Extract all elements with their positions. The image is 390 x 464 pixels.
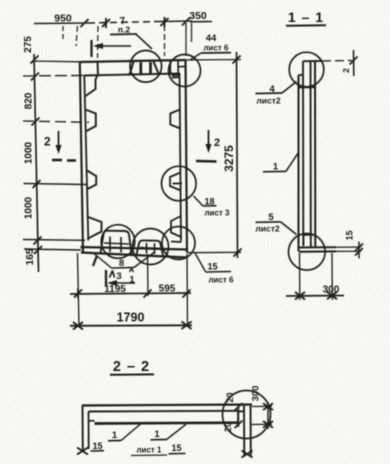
weld dash inside K6	[171, 241, 182, 244]
weld slash mark	[93, 256, 97, 267]
dim 300: extension lines	[300, 253, 333, 300]
3275 top tick	[233, 56, 241, 64]
extension x186	[186, 254, 189, 327]
leader 18 to K3	[194, 196, 204, 206]
right leg end arrow	[242, 451, 253, 458]
top hat ticks	[141, 62, 151, 74]
right corner box inside K2	[170, 61, 180, 75]
tick x78	[74, 289, 82, 299]
left dimension line	[34, 54, 39, 272]
member vertical v1	[297, 75, 299, 252]
top extension x98	[97, 26, 100, 58]
bottom weld hat 2	[137, 240, 164, 255]
left tab A	[85, 75, 98, 96]
top plate outer line	[82, 405, 252, 406]
section mark 2 left: dashes	[52, 159, 76, 162]
left leg end arrow	[77, 448, 88, 455]
leader 4 to K7	[282, 82, 297, 94]
right top corner step	[178, 60, 186, 74]
right tab B'	[170, 110, 180, 129]
extension line y76.5	[23, 74, 85, 77]
dim 20 top: tick	[350, 57, 358, 65]
extension line y121.5	[23, 121, 89, 122]
left tab B	[85, 110, 96, 132]
top extension x191	[191, 23, 193, 42]
top weld hat inside circle	[130, 62, 159, 75]
dim 15 ticks	[355, 244, 363, 256]
dimension line 1790	[70, 324, 192, 327]
top dim tick 164	[161, 17, 169, 27]
title underline	[286, 24, 326, 27]
extension line y240.5	[23, 239, 85, 242]
top dimension line	[34, 21, 192, 24]
detail circle K3 right mid	[162, 166, 197, 201]
dimension line 1195/595	[70, 293, 191, 294]
dim arrows x268	[263, 403, 273, 427]
weld line top	[299, 86, 316, 88]
detail circle K2 top right corner	[169, 55, 201, 87]
extension line y250	[24, 249, 81, 250]
bottom hat 1 ticks	[110, 237, 121, 253]
bottom hat 2 mid dash	[140, 248, 160, 249]
underline p.2	[110, 33, 137, 36]
dim 20 top: leader dashes	[322, 60, 352, 63]
section mark 2 left: arrow	[58, 131, 60, 148]
left top corner step	[97, 62, 100, 75]
tick y184	[33, 180, 41, 188]
tick y121.5	[32, 118, 40, 126]
top dim tick 106	[102, 18, 110, 28]
right tab D'	[171, 216, 181, 237]
left member outer edge	[80, 62, 83, 253]
right leg outer pair	[244, 405, 251, 456]
ref arrow pointing left	[97, 45, 131, 47]
tick y250	[34, 246, 42, 254]
caret over 1	[130, 269, 134, 273]
member vertical v3	[310, 61, 312, 248]
top extension x164	[164, 25, 166, 56]
underline list 1	[131, 454, 167, 457]
cap jog	[299, 74, 304, 76]
right member inner edge	[180, 74, 182, 242]
3275 bottom tick	[234, 249, 242, 257]
extension lines right of 2-2	[251, 406, 272, 424]
bottom chord inner edge	[81, 247, 187, 250]
bottom hat 1 mid dash	[104, 243, 129, 244]
mark lambda	[110, 271, 115, 278]
tick y59	[31, 56, 39, 64]
top plate inner line	[89, 410, 239, 413]
top dim tick 84	[81, 19, 89, 27]
detail circle K8 bottom	[289, 234, 326, 271]
member vertical v4	[314, 61, 316, 248]
extension line y60.5	[32, 60, 80, 63]
bottom hat 2 ticks	[147, 243, 155, 254]
right tab C' weld dash	[173, 183, 183, 185]
tick y240.5	[34, 237, 42, 245]
right tab C'	[170, 173, 181, 191]
step lines left	[89, 420, 95, 422]
extension line y184	[24, 184, 88, 185]
tick y76.5	[31, 73, 39, 81]
leader 15 to K6	[195, 253, 206, 272]
left member inner edge	[84, 75, 88, 241]
dim bar x238.5	[238, 404, 240, 427]
left leg inner / step	[88, 412, 90, 450]
extension x147.5	[147, 254, 150, 296]
leader 5 to K8	[281, 222, 297, 235]
underline list6	[201, 52, 231, 54]
left tab C	[86, 170, 96, 190]
dim 20 top: bar	[353, 50, 355, 76]
foot hook	[304, 235, 316, 246]
tick x147.5	[144, 290, 152, 298]
detail circle K7 top	[289, 52, 324, 87]
detail circle K9	[223, 391, 271, 439]
detail circle K5 bottom mid	[133, 229, 169, 265]
top dimension line dashed middle	[88, 22, 160, 24]
member vertical v2	[302, 61, 304, 246]
top extension x186	[185, 23, 187, 56]
arrow x186.5	[182, 322, 192, 330]
section mark 2 right: bar	[196, 160, 217, 163]
title underline	[110, 373, 154, 375]
left leg outer	[82, 406, 84, 451]
section mark 2 right: arrow	[208, 130, 210, 147]
extension bottom right	[187, 251, 241, 253]
bottom weld hat 1	[101, 231, 132, 254]
left tab D	[87, 217, 102, 239]
right step	[238, 411, 244, 422]
top extension dashes x63	[62, 26, 64, 39]
dim 300: arrows	[295, 292, 337, 300]
top chord inner edge	[84, 74, 180, 76]
leader from p.2 to circle K1	[136, 34, 152, 49]
3275 dimension line	[237, 52, 238, 258]
leader 8 right	[134, 253, 154, 268]
dim bar x268	[267, 402, 269, 429]
tick x186.5	[183, 290, 191, 298]
top dim tick 186	[182, 18, 190, 26]
foot bottom line	[299, 250, 336, 252]
top extension x78	[76, 26, 78, 46]
leader 8 left	[94, 254, 112, 269]
underline of 350	[190, 21, 212, 23]
arrow x78	[73, 322, 83, 330]
right member outer edge	[186, 60, 188, 253]
detail circle K4 bottom left	[101, 225, 135, 259]
weld blob in K2	[172, 73, 181, 79]
top chord outer edge	[80, 60, 186, 62]
foot extensions	[336, 247, 361, 251]
dim 300: line	[286, 295, 344, 298]
detail circle K6 bottom right	[162, 227, 195, 260]
leader 44 to K2	[190, 53, 201, 60]
extension x78	[78, 253, 80, 327]
bottom chord outer edge	[81, 253, 187, 258]
dim 15 right: bar	[358, 242, 360, 259]
foot top line	[299, 246, 336, 248]
detail circle K1 top chord	[130, 51, 162, 83]
lower plate thick line	[95, 421, 239, 424]
ref arrow bar at top	[90, 40, 92, 57]
ref bar	[105, 270, 107, 287]
member cap top	[303, 60, 321, 62]
dim bar ticks	[235, 403, 243, 428]
ref arrow pointing left	[111, 282, 135, 284]
extension top right	[186, 59, 241, 62]
